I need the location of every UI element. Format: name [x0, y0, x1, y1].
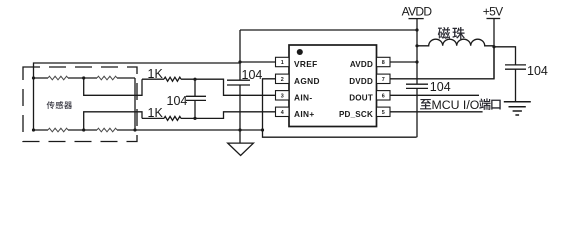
label 至MCU I/O端口	[420, 98, 501, 112]
svg-text:+5V: +5V	[483, 5, 503, 19]
node bridge S- junction dot	[82, 128, 85, 131]
ground symbol right	[504, 102, 531, 115]
wire +5V column	[493, 19, 495, 79]
node rail cap2 junction dot	[238, 128, 241, 131]
svg-text:104: 104	[430, 80, 451, 94]
svg-text:AIN+: AIN+	[294, 109, 315, 119]
capacitor C 104 +5V bypass	[505, 65, 526, 101]
svg-text:5: 5	[382, 110, 385, 116]
pin 2 box	[276, 74, 290, 83]
resistor R 1K top	[142, 78, 164, 80]
svg-text:2: 2	[281, 77, 284, 83]
pin 3 box	[276, 91, 290, 100]
capacitor C 104 AVDD bypass	[406, 84, 428, 88]
IC U1 body	[289, 45, 377, 127]
IC pin1 marker dot	[297, 49, 303, 55]
svg-text:VREF: VREF	[294, 59, 318, 69]
sensor label 传感器	[47, 101, 73, 109]
capacitor C 104 differential	[186, 79, 206, 118]
wire pin7 DVDD to +5V	[390, 47, 494, 79]
node AVDD bead junction dot	[415, 44, 418, 47]
node bridge S+ junction dot	[82, 76, 85, 79]
svg-text:104: 104	[167, 94, 188, 108]
svg-text:AVDD: AVDD	[350, 60, 373, 69]
svg-text:7: 7	[382, 77, 385, 83]
wire pin8 AVDD	[390, 61, 417, 63]
label 磁珠	[438, 27, 465, 39]
wire pin2 AGND to ground rail	[263, 79, 276, 130]
svg-text:DOUT: DOUT	[349, 94, 373, 103]
wire AVDD column	[416, 19, 418, 138]
pin 7 box	[377, 74, 391, 83]
pin 4 box	[276, 107, 290, 116]
svg-text:PD_SCK: PD_SCK	[339, 110, 373, 119]
node bridge bottom-left junction dot	[32, 128, 35, 131]
svg-text:6: 6	[382, 94, 385, 100]
pin 5 box	[377, 107, 391, 116]
node 1K bottom cap junction dot	[193, 117, 196, 120]
wire bridge E+ left vertical and top excitation to AVDD rail	[34, 63, 241, 130]
pin 6 box	[377, 91, 391, 100]
wire pin1 VREF	[240, 61, 276, 63]
wire pin6 DOUT	[390, 94, 479, 96]
resistor bridge top-right	[97, 76, 117, 80]
node AVDD pin8 junction dot	[415, 60, 418, 63]
svg-text:1K: 1K	[148, 67, 164, 81]
node VREF junction junction dot	[238, 60, 241, 63]
wire ground rail lower run	[263, 130, 417, 137]
svg-text:4: 4	[281, 110, 284, 116]
svg-text:MCU I/O: MCU I/O	[432, 98, 480, 112]
resistor R 1K bottom	[142, 117, 164, 119]
wire pin5 PD_SCK	[390, 111, 483, 113]
node bridge top-left junction dot	[32, 76, 35, 79]
svg-text:104: 104	[242, 68, 263, 82]
svg-text:8: 8	[382, 60, 385, 66]
pin 8 box	[377, 57, 391, 66]
resistor bridge bottom-right	[97, 128, 117, 132]
svg-text:DVDD: DVDD	[349, 77, 373, 86]
node 1K top cap junction dot	[193, 78, 196, 81]
capacitor C 104 on VREF	[227, 80, 250, 85]
svg-text:104: 104	[527, 64, 548, 78]
wire top rail AVDD to bridge	[240, 29, 417, 31]
svg-text:1K: 1K	[148, 106, 164, 120]
wire bridge top row	[34, 77, 136, 79]
svg-text:AIN-: AIN-	[294, 93, 312, 103]
wire S- tap	[84, 112, 142, 130]
ground triangle	[228, 130, 254, 156]
node rail AGND junction dot	[261, 128, 264, 131]
pin 1 box	[276, 57, 290, 66]
wire bridge E- right vertical	[134, 78, 136, 130]
wire bottom row / ground rail	[34, 129, 263, 131]
svg-text:AGND: AGND	[294, 76, 320, 86]
node +5V bead junction dot	[492, 45, 495, 48]
resistor bridge top-left	[48, 76, 68, 80]
svg-text:AVDD: AVDD	[402, 5, 433, 19]
wire +5V to bypass cap	[494, 47, 516, 65]
ferrite bead 磁珠	[417, 39, 494, 46]
node AVDD rail top junction dot	[415, 28, 418, 31]
svg-text:3: 3	[281, 94, 284, 100]
wire S+ tap	[84, 78, 142, 95]
svg-text:1: 1	[281, 60, 284, 66]
resistor bridge bottom-left	[48, 128, 68, 132]
wire VREF/AVDD branch column	[239, 30, 241, 130]
sensor dashed box 传感器	[23, 67, 137, 142]
node bridge E- rail junction dot	[133, 128, 136, 131]
